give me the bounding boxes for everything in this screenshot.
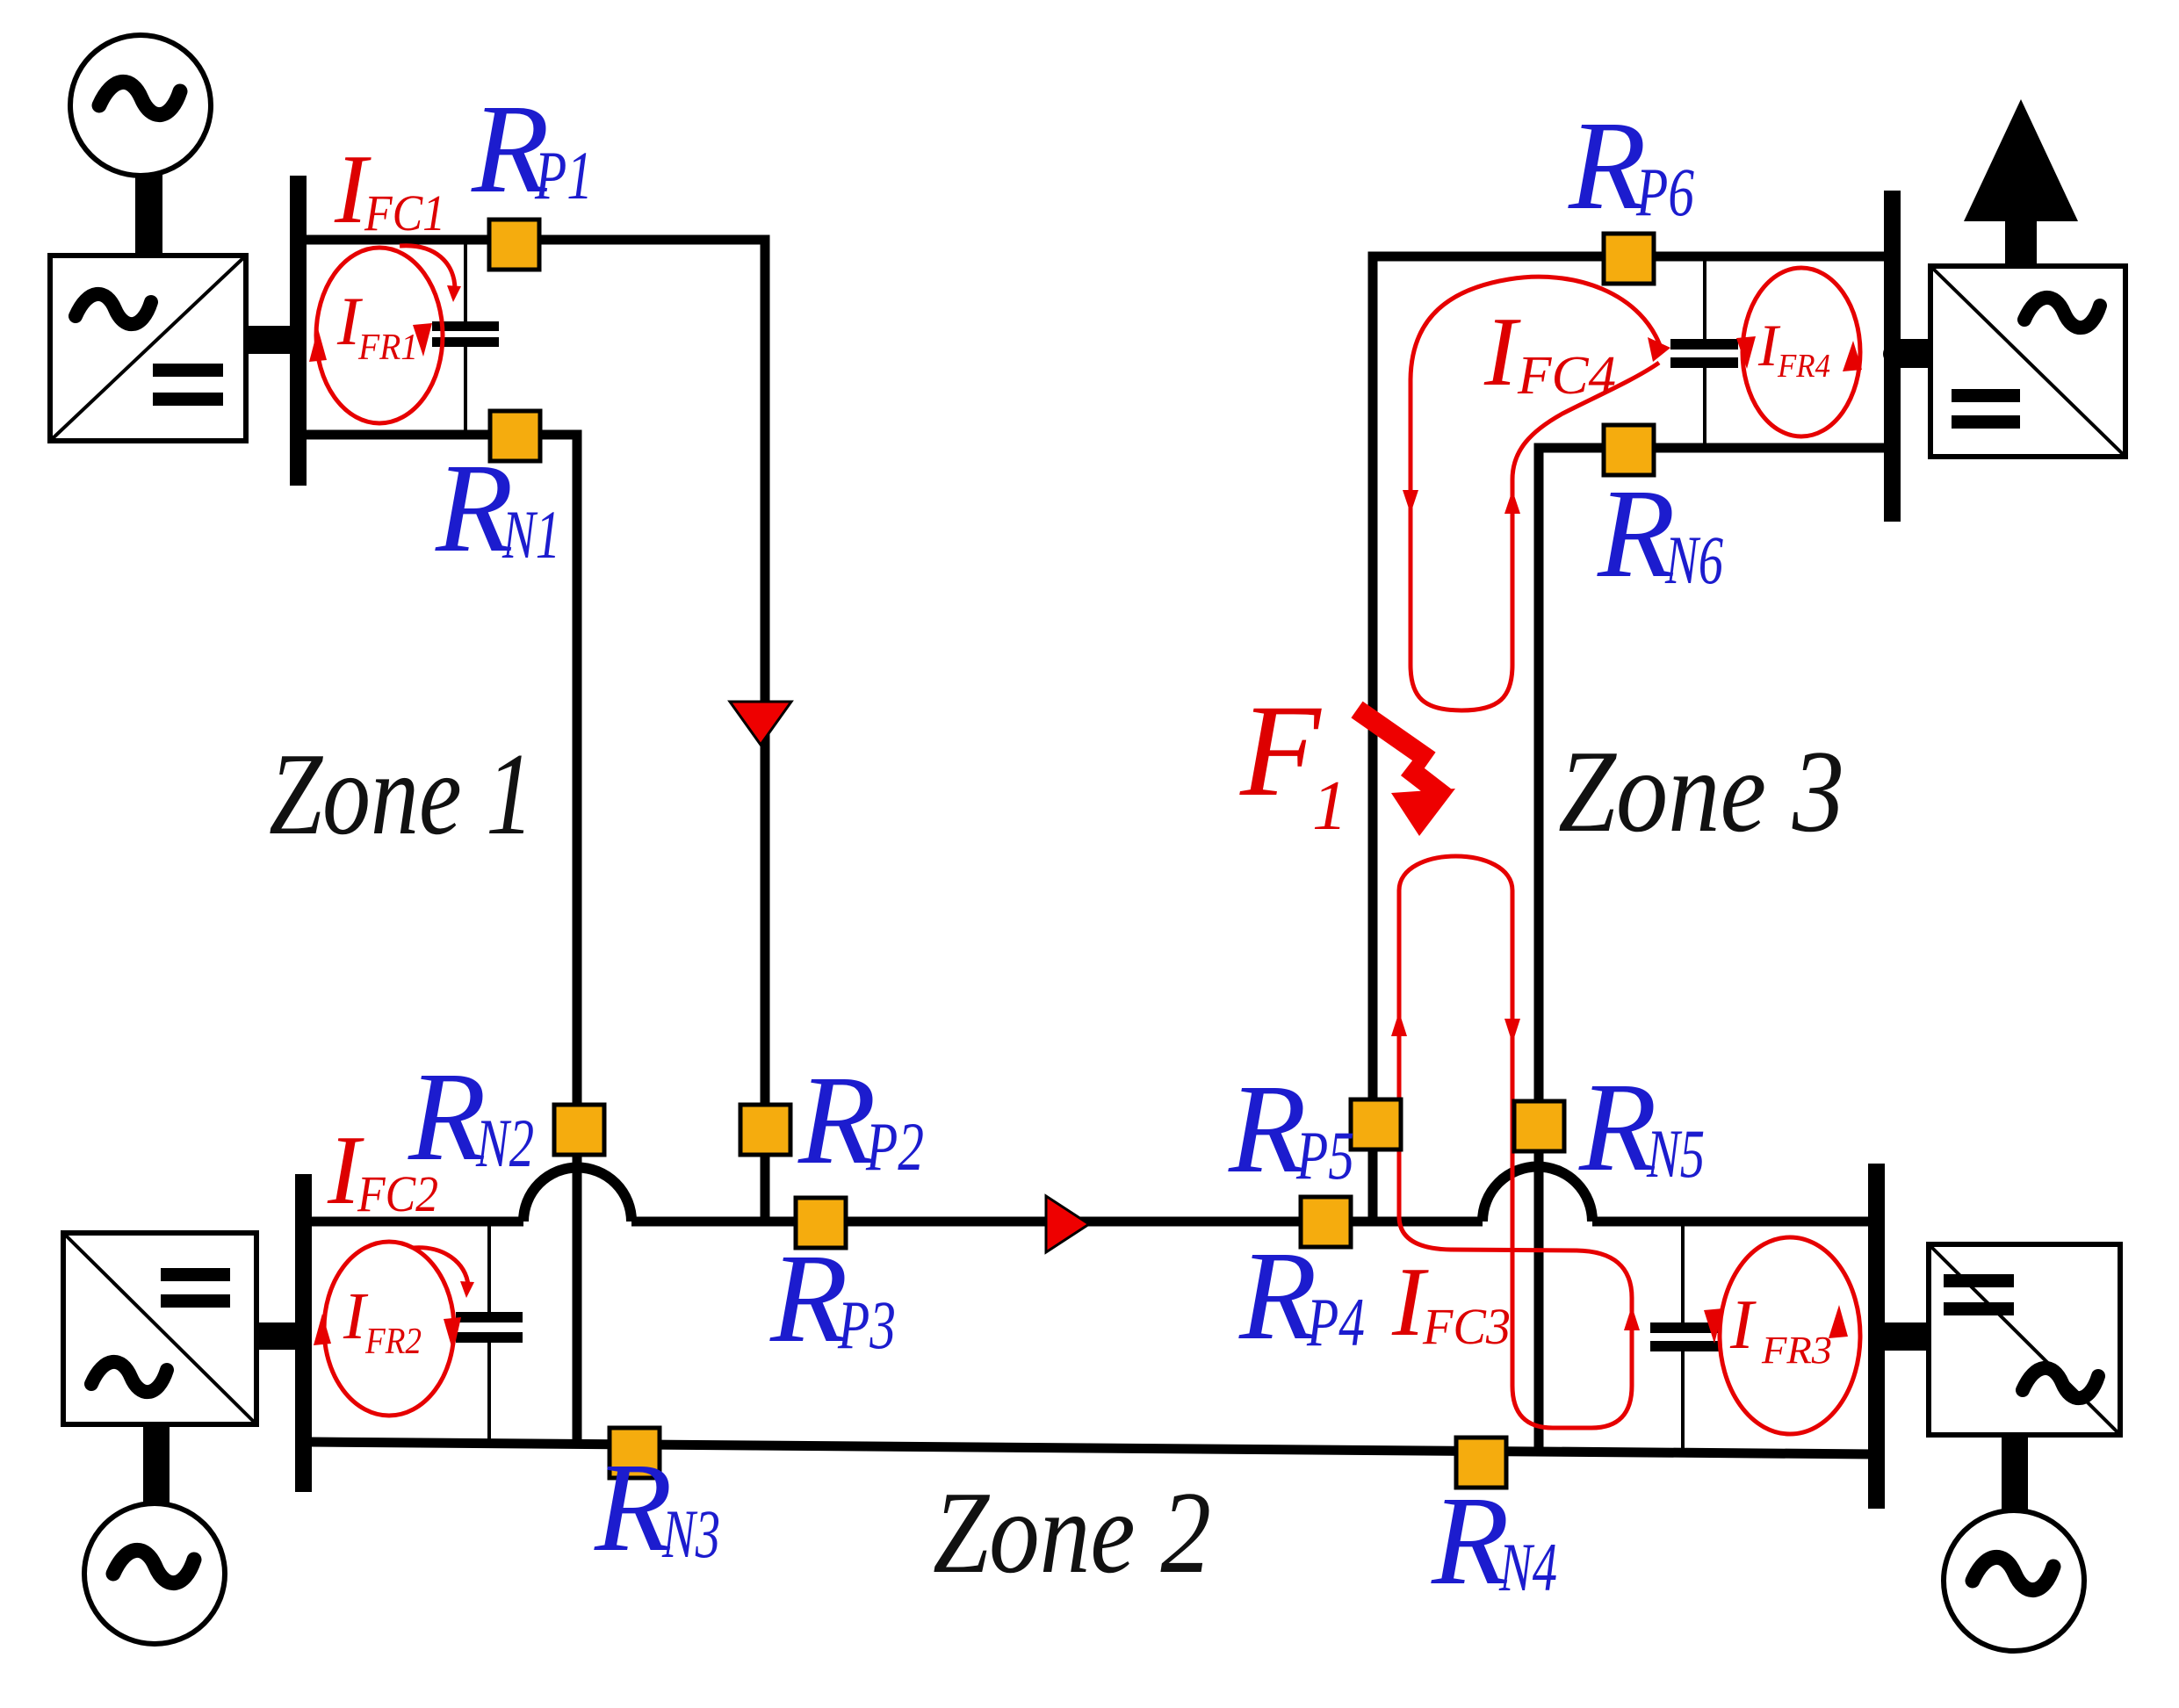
svg-text:1: 1 [1312, 768, 1347, 845]
svg-text:FR2: FR2 [364, 1322, 422, 1362]
svg-text:N6: N6 [1664, 522, 1723, 598]
svg-text:N5: N5 [1646, 1115, 1705, 1192]
svg-text:P3: P3 [837, 1286, 896, 1363]
svg-text:R: R [769, 1229, 848, 1369]
svg-text:P2: P2 [865, 1108, 924, 1185]
svg-text:FR3: FR3 [1761, 1329, 1832, 1372]
svg-text:R: R [797, 1050, 877, 1191]
svg-text:N3: N3 [661, 1495, 720, 1572]
svg-text:N4: N4 [1498, 1529, 1557, 1605]
svg-text:F: F [1239, 678, 1322, 824]
svg-text:R: R [1597, 464, 1676, 604]
svg-text:N2: N2 [475, 1105, 534, 1181]
svg-text:N1: N1 [501, 496, 560, 573]
svg-text:Zone 2: Zone 2 [933, 1467, 1211, 1597]
svg-text:P6: P6 [1635, 154, 1694, 230]
svg-text:R: R [1431, 1471, 1510, 1611]
svg-text:R: R [1568, 96, 1647, 236]
svg-text:P1: P1 [534, 137, 593, 213]
svg-text:P4: P4 [1306, 1284, 1365, 1360]
svg-text:I: I [1483, 298, 1521, 407]
svg-text:R: R [1228, 1059, 1307, 1200]
svg-text:R: R [1238, 1226, 1317, 1366]
svg-text:FR1: FR1 [357, 328, 418, 368]
svg-text:R: R [594, 1438, 673, 1578]
svg-text:FR4: FR4 [1777, 348, 1830, 385]
svg-text:FC3: FC3 [1422, 1298, 1511, 1355]
svg-text:Zone 1: Zone 1 [269, 729, 534, 859]
svg-text:FC1: FC1 [364, 184, 445, 241]
svg-text:P5: P5 [1295, 1117, 1354, 1193]
svg-text:R: R [1578, 1057, 1657, 1198]
svg-text:FC4: FC4 [1517, 346, 1616, 406]
svg-text:FC2: FC2 [357, 1165, 438, 1222]
svg-text:I: I [1729, 1286, 1757, 1364]
svg-text:Zone 3: Zone 3 [1558, 726, 1844, 856]
